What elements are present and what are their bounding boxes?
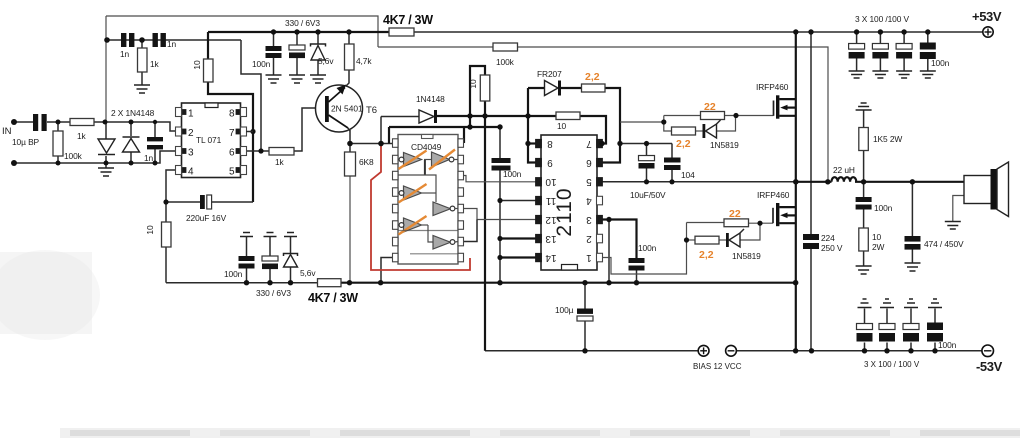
node dots bootstrap caps: [644, 141, 649, 146]
wire 10-ohm supply drop to TL071 pin7: [207, 32, 209, 59]
capacitor 100n pin3 snubber: [629, 258, 645, 263]
wire 474 branch: [911, 182, 913, 236]
wire clamp diode stubs: [105, 122, 107, 139]
diode 1N4148: [419, 110, 434, 123]
wire 10 ohm loop to VDD line: [470, 66, 485, 127]
wire -rail bottom y=282.7 left segment: [166, 282, 318, 284]
svg-text:2 X 1N4148: 2 X 1N4148: [111, 108, 155, 118]
pin stubs TL071 left: [176, 108, 182, 117]
ground input clamp: [98, 168, 114, 176]
svg-text:1k: 1k: [77, 131, 87, 141]
wire TL071 pin6 to 1k: [246, 150, 269, 152]
wire input 1n cap stubs: [154, 122, 156, 137]
svg-text:7: 7: [229, 128, 235, 139]
capacitor 474/450V: [905, 236, 921, 242]
wire 224 snubber vertical x=811: [810, 32, 812, 234]
wire top-left 1k bias stubs: [141, 40, 143, 48]
svg-text:1N4148: 1N4148: [416, 94, 445, 104]
svg-text:220uF 16V: 220uF 16V: [186, 213, 227, 223]
wire output node to speaker: [796, 181, 832, 183]
svg-text:10: 10: [192, 60, 202, 70]
wire 2110 pin12 to CD4049: [463, 209, 537, 220]
wire 2110 pin14: [500, 256, 536, 258]
node dot x=107 y=40: [104, 37, 110, 43]
capacitor 10uF/50V bootstrap: [639, 156, 655, 161]
svg-text:100n: 100n: [503, 169, 522, 179]
svg-text:1n: 1n: [120, 49, 130, 59]
svg-text:5,6v: 5,6v: [300, 268, 316, 278]
capacitor 100n logic decouple: [492, 158, 511, 163]
wire top feedback rail y=16: [106, 16, 378, 47]
wire 2110 pin13: [500, 237, 536, 239]
svg-text:100n: 100n: [224, 269, 243, 279]
resistor 1k input: [70, 119, 94, 126]
diode zener 5,6v bottom: [284, 254, 298, 257]
resistor 22 upper gate: [701, 112, 725, 120]
svg-text:100n: 100n: [252, 59, 271, 69]
wire 1n coupling row y=40: [107, 39, 241, 41]
wire bottom right filter cap stubs: [864, 309, 866, 324]
inverter gate C (crossed): [398, 192, 402, 194]
svg-text:9: 9: [547, 157, 553, 168]
wire 1K5 branch: [863, 110, 865, 128]
svg-text:1N5819: 1N5819: [710, 140, 739, 150]
capacitor 330/6V3 bottom electrolytic: [262, 256, 278, 261]
node dots x=500: [497, 198, 502, 203]
wire from 1n row down to pin6 node: [241, 40, 261, 151]
speaker: [964, 176, 994, 204]
resistor 10 left-bottom: [162, 222, 172, 247]
internal partition lines: [398, 175, 436, 202]
pin stubs 2110 left: [536, 139, 542, 148]
svg-text:5,6v: 5,6v: [318, 56, 334, 66]
node IN top terminal: [11, 119, 17, 125]
op-amp U1 TL071 body: [182, 103, 241, 178]
transistor Q1 2N5401: [316, 85, 363, 132]
grounds top right caps: [849, 71, 865, 78]
wire gate-drive node y=116: [437, 115, 557, 117]
svg-text:2: 2: [586, 233, 592, 244]
svg-text:10: 10: [557, 121, 567, 131]
node dots output line: [825, 179, 830, 184]
svg-text:-53V: -53V: [976, 359, 1003, 374]
wire 2110 pin1 to lower gate network: [602, 240, 687, 274]
capacitor 100n zobel: [856, 197, 872, 202]
resistor 2,2 upper gate: [672, 127, 696, 135]
resistor 6K8: [345, 152, 356, 176]
node dots -rail right near 6K8: [347, 280, 352, 285]
svg-text:10: 10: [872, 232, 882, 242]
svg-text:4K7 / 3W: 4K7 / 3W: [308, 291, 358, 305]
svg-text:100n: 100n: [874, 203, 893, 213]
polarity marks above bottom right caps: [858, 299, 872, 308]
wire speaker ground branch: [953, 196, 964, 222]
IC U3 IR2110 body: [541, 135, 597, 270]
ground zobel: [856, 266, 872, 274]
resistor 22 lower gate: [724, 219, 749, 227]
wire 2110 pin5 output row y=181.8: [602, 181, 796, 183]
wire MOSFET output column: [795, 32, 797, 351]
resistor 2,2 top: [582, 84, 606, 92]
ground speaker: [945, 222, 961, 230]
svg-text:1k: 1k: [150, 59, 160, 69]
svg-text:100µ: 100µ: [555, 305, 574, 315]
resistor 10 horizontal gate line: [556, 112, 580, 120]
svg-text:4: 4: [586, 195, 592, 206]
capacitors 3 X 100/100V bottom: [857, 324, 920, 342]
svg-text:100n: 100n: [938, 340, 957, 350]
svg-text:10: 10: [468, 79, 478, 89]
wire -53V rail bottom right segment: [341, 282, 796, 284]
svg-text:BIAS 12 VCC: BIAS 12 VCC: [693, 362, 742, 371]
node dot collector: [347, 141, 353, 147]
wire CD4049 VSS pin to -rail: [381, 258, 393, 283]
capacitor 220uF 16V: [200, 195, 205, 209]
pin stubs 2110 right: [597, 139, 603, 148]
capacitor 104 bootstrap: [664, 158, 681, 163]
capacitor 100n top right: [920, 43, 936, 50]
diode zener 5,6v top: [311, 44, 326, 47]
svg-text:100k: 100k: [496, 57, 515, 67]
svg-text:5: 5: [586, 176, 592, 187]
wire FR207 branch y=88: [528, 87, 545, 89]
svg-text:14: 14: [545, 252, 557, 263]
wire input bottom y=163: [14, 151, 176, 163]
resistor 100k input: [53, 131, 63, 156]
pin stubs TL071 right: [241, 108, 247, 117]
ground electrolytic top: [289, 75, 305, 83]
capacitors 3 X 100/100V top: [849, 44, 913, 59]
wire upper 22 left link: [664, 116, 672, 132]
wire CD4049 VDD top line y=127: [389, 126, 500, 128]
wire 4,7k stubs: [348, 32, 350, 44]
diode 1N5819 upper: [703, 124, 706, 138]
terminal +53V: [983, 27, 993, 37]
node dots lower gate network: [684, 237, 689, 242]
svg-text:CD4049: CD4049: [411, 142, 442, 152]
svg-text:100n: 100n: [931, 58, 950, 68]
wire top right filter cap stubs: [856, 32, 858, 44]
ground zener top: [310, 75, 326, 83]
wire 100k input vertical: [57, 122, 59, 131]
diode clamp 1N4148 b: [123, 136, 140, 138]
inverter gate E (crossed): [398, 224, 402, 226]
inverter gate F (used): [433, 236, 451, 250]
ground 1k top-left: [134, 85, 150, 93]
svg-text:6K8: 6K8: [359, 157, 374, 167]
resistor 1K5 2W: [859, 128, 869, 151]
svg-text:22: 22: [704, 101, 716, 113]
wire +53V rail right segment y=32: [414, 31, 983, 33]
svg-text:10uF/50V: 10uF/50V: [630, 190, 666, 200]
svg-text:2: 2: [188, 128, 194, 139]
svg-text:1k: 1k: [275, 157, 285, 167]
wire 6K8 bottom to -rail: [349, 176, 351, 283]
capacitor 10u BP: [33, 114, 38, 131]
terminal BIAS -: [726, 345, 737, 356]
wire collector junction row y=143.5: [349, 130, 351, 152]
capacitor 330/6V3 top electrolytic: [289, 45, 305, 50]
wire input top: [14, 121, 33, 123]
svg-text:2110: 2110: [553, 187, 576, 236]
node dots +rail taps: [271, 29, 276, 34]
svg-text:100n: 100n: [638, 243, 657, 253]
svg-text:3: 3: [188, 148, 194, 159]
svg-text:8: 8: [547, 138, 553, 149]
diode FR207: [545, 81, 559, 96]
capacitor 100n bottom right: [927, 323, 943, 331]
resistor 10 supply top: [204, 59, 214, 82]
node dot 1k tap: [139, 37, 145, 43]
wire VDD long vertical to BIAS rail: [484, 101, 486, 351]
capacitor 224 250V: [803, 234, 819, 240]
svg-text:1N5819: 1N5819: [732, 251, 761, 261]
node dot 220u: [163, 199, 168, 204]
svg-text:1: 1: [188, 109, 194, 120]
svg-text:4: 4: [188, 167, 194, 178]
watermark blob bottom left: [0, 252, 92, 334]
node dot 4049 input: [378, 141, 384, 147]
node dot pin6: [258, 148, 263, 153]
resistor 4K7/3W bottom: [318, 279, 342, 287]
capacitor 100u bias: [577, 309, 593, 314]
svg-text:250 V: 250 V: [821, 243, 843, 253]
inverter gate A (crossed): [398, 159, 402, 161]
diode 1N5819 lower: [726, 233, 729, 247]
inverter gate D (used): [433, 202, 451, 216]
svg-text:2W: 2W: [872, 242, 885, 252]
svg-text:2,2: 2,2: [585, 71, 600, 83]
wire 2110 pin10 to CD4049: [463, 176, 537, 182]
capacitor 100n top row: [266, 46, 282, 51]
svg-text:2,2: 2,2: [676, 138, 691, 150]
wire 220uF node down through 10 ohm to -rail: [165, 247, 167, 283]
resistor 1k top-left: [138, 48, 148, 72]
svg-text:1: 1: [586, 252, 592, 263]
node dots VDD line: [467, 113, 472, 118]
polarity marks above bottom caps: [240, 233, 253, 237]
wire left vertical feedback x=106: [105, 16, 107, 122]
node junction dots input: [56, 120, 61, 125]
svg-text:100k: 100k: [64, 151, 83, 161]
wire 2110 pin3 snubber: [602, 220, 637, 259]
svg-text:7: 7: [586, 138, 592, 149]
wire feedback line y=47 to output: [378, 47, 828, 182]
svg-text:1n: 1n: [167, 39, 177, 49]
node dots 2110 area: [525, 141, 530, 146]
wire 1k to transistor base: [294, 108, 325, 151]
svg-text:10: 10: [145, 225, 155, 235]
resistor 1k pin6: [269, 148, 294, 156]
wire TL071 pin4 to 220uF node: [166, 170, 176, 222]
svg-text:3 X 100 / 100 V: 3 X 100 / 100 V: [864, 360, 920, 369]
svg-text:224: 224: [821, 233, 835, 243]
svg-text:474 / 450V: 474 / 450V: [924, 239, 964, 249]
terminal BIAS +: [698, 345, 709, 356]
svg-text:3 X 100 /100 V: 3 X 100 /100 V: [855, 14, 910, 24]
wire VCC to 2110 pins 8/9 x=528: [528, 88, 536, 163]
svg-text:2N 5401: 2N 5401: [331, 104, 363, 114]
wire lower MOSFET taps: [779, 206, 795, 208]
ground above 1K5: [856, 103, 872, 110]
resistor 10 vertical VDD: [480, 75, 490, 101]
wire bootstrap cap stubs: [646, 144, 648, 156]
svg-text:10: 10: [545, 176, 557, 187]
svg-text:4K7 / 3W: 4K7 / 3W: [383, 13, 433, 27]
wire 220uF to pin7 vertical: [166, 201, 200, 203]
resistor 100k feedback: [493, 43, 518, 51]
transistor M2 IRFP460 lower: [772, 208, 774, 223]
wire 1N4148 anode drop: [380, 117, 382, 144]
wire 330/6V3 bottom row stubs: [246, 237, 248, 256]
svg-text:330 / 6V3: 330 / 6V3: [256, 288, 291, 298]
svg-text:10µ BP: 10µ BP: [12, 137, 40, 147]
resistor 2,2 lower gate: [695, 236, 719, 244]
svg-text:T6: T6: [366, 105, 377, 116]
diode clamp 1N4148 a: [98, 139, 115, 153]
svg-text:3: 3: [586, 214, 592, 225]
node dots output column: [793, 179, 799, 185]
wire 100n decouple vertical x=500: [499, 127, 501, 158]
resistor 4K7/3W top: [389, 28, 414, 36]
svg-text:22 uH: 22 uH: [833, 165, 855, 175]
transistor M1 IRFP460 upper: [773, 101, 775, 116]
pin stubs CD4049 left: [393, 139, 399, 148]
resistor 10 2W zobel: [859, 228, 869, 251]
node dots bias rail: [809, 348, 814, 353]
svg-text:5: 5: [229, 167, 235, 178]
resistor 4,7k: [345, 44, 355, 70]
svg-text:TL 071: TL 071: [196, 135, 222, 145]
watermark band bottom: [60, 428, 1020, 438]
svg-text:IRFP460: IRFP460: [756, 82, 789, 92]
capacitor 100n bottom row: [239, 256, 255, 261]
inductor 22uH: [832, 177, 857, 182]
capacitor 1n top-left b: [153, 33, 158, 47]
svg-text:IN: IN: [2, 126, 12, 137]
node dots upper gate network: [661, 119, 666, 124]
svg-text:6: 6: [229, 148, 235, 159]
svg-text:+53V: +53V: [972, 9, 1002, 24]
svg-text:1K5 2W: 1K5 2W: [873, 134, 902, 144]
wire 330/6V3 cap stubs top row: [273, 32, 275, 46]
svg-text:FR207: FR207: [537, 69, 562, 79]
wire BIAS/-53V rail right segment: [737, 350, 982, 352]
node dots -rail left: [244, 280, 249, 285]
wire BIAS rail left segment to + terminal: [485, 350, 698, 352]
ground 100n top: [266, 75, 282, 83]
wire +rail left segment y=32 (330/6V3 row): [208, 31, 389, 33]
ground 474: [905, 263, 921, 271]
node dots +53V rail: [793, 29, 798, 34]
wire 2110 pin11: [500, 200, 536, 202]
wire lower 22 left link: [686, 223, 688, 241]
node dot pin7: [250, 129, 255, 134]
IC U2 CD4049 body: [398, 135, 458, 265]
wire bootstrap caps row y=143.5: [620, 143, 672, 145]
svg-text:330 / 6V3: 330 / 6V3: [285, 18, 320, 28]
svg-text:6: 6: [586, 157, 592, 168]
svg-text:4,7k: 4,7k: [356, 56, 372, 66]
svg-text:IRFP460: IRFP460: [757, 190, 790, 200]
svg-text:8: 8: [229, 109, 235, 120]
node IN bottom terminal: [11, 160, 17, 166]
inverter gate B (crossed): [424, 159, 431, 161]
red wire CD4049 feedback: [371, 146, 470, 270]
svg-text:104: 104: [681, 170, 695, 180]
svg-text:22: 22: [729, 208, 741, 220]
capacitor 1n top-left a: [121, 33, 126, 47]
svg-text:1n: 1n: [144, 153, 154, 163]
wire gate feed upper y=122: [620, 121, 664, 123]
pin stubs CD4049 right: [458, 139, 464, 148]
terminal -53V: [982, 345, 994, 357]
svg-text:2,2: 2,2: [699, 249, 714, 261]
wire 100u cap branch: [584, 283, 586, 309]
wire upper MOSFET taps: [779, 98, 795, 100]
capacitor 1n input: [147, 137, 163, 141]
